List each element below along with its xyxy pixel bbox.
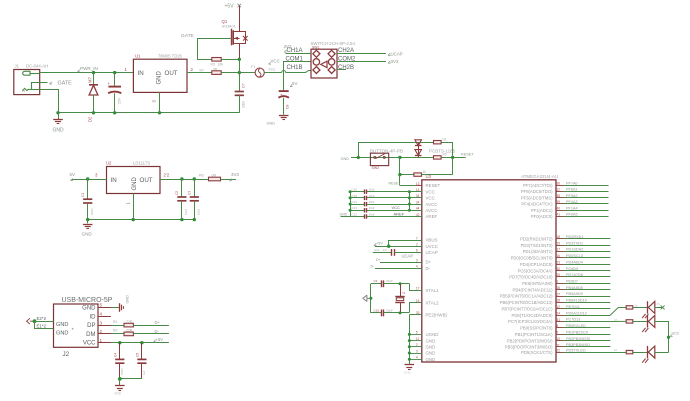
node junction rail at D2 xyxy=(92,111,95,114)
wire Q1 source down to R3 node xyxy=(239,44,241,60)
svg-text:+5V: +5V xyxy=(655,302,660,306)
svg-text:VCC: VCC xyxy=(672,332,680,336)
node junction VCC LEDs xyxy=(667,336,670,339)
svg-text:VCC: VCC xyxy=(392,205,401,210)
svg-text:UCAP: UCAP xyxy=(426,250,438,255)
svg-text:100n: 100n xyxy=(120,368,124,375)
node junction reset right xyxy=(451,156,454,159)
svg-text:IN: IN xyxy=(138,70,144,77)
resistor RLED1 xyxy=(626,306,633,309)
capacitor C11 1uf on UCAP xyxy=(391,249,393,256)
wire net PD7A7D6 xyxy=(564,276,611,278)
label 3V3 at CH1A xyxy=(284,50,287,52)
svg-text:COM1: COM1 xyxy=(286,56,304,62)
svg-text:GND: GND xyxy=(82,231,93,236)
svg-text:F1: F1 xyxy=(251,65,255,69)
pin stub VCC xyxy=(416,191,422,193)
wire RLED2 to LED2 xyxy=(633,321,647,323)
svg-text:AVCC: AVCC xyxy=(426,208,438,213)
svg-text:5V: 5V xyxy=(70,172,75,177)
node junction GND cap bus xyxy=(349,209,352,212)
svg-text:PF0(ADC0): PF0(ADC0) xyxy=(531,214,553,219)
svg-text:PB5A9D9: PB5A9D9 xyxy=(566,292,583,296)
svg-text:4: 4 xyxy=(416,356,418,360)
diode D2 M7 xyxy=(93,73,95,85)
svg-text:PC6(OC3A/OC4A): PC6(OC3A/OC4A) xyxy=(518,268,554,273)
regulator U1 78M05 box xyxy=(133,59,187,92)
ground rail wire xyxy=(58,112,239,114)
svg-text:5V: 5V xyxy=(292,81,297,86)
resistor R3 gate pull xyxy=(212,58,221,62)
svg-text:C10: C10 xyxy=(374,308,380,312)
node junction rail left xyxy=(86,218,89,221)
svg-text:0R: 0R xyxy=(212,173,217,177)
node junction GND cap bus xyxy=(349,203,352,206)
wire RLED3 to LED3 xyxy=(633,352,647,354)
wire COM1 to C8 xyxy=(284,62,312,91)
diode D6 clamp upper xyxy=(418,142,420,157)
svg-text:3: 3 xyxy=(416,349,418,353)
svg-text:PWR_IN: PWR_IN xyxy=(80,66,98,71)
wire crystal top node xyxy=(371,283,381,285)
svg-text:U1: U1 xyxy=(135,54,141,59)
ic U3 ATMEGA32U4-AU box xyxy=(422,180,556,362)
wire net PB5A9D9 xyxy=(564,296,611,298)
svg-text:PD1SDA2: PD1SDA2 xyxy=(566,248,583,252)
node junction shield xyxy=(33,319,37,323)
node junction VBUS-UVCC xyxy=(387,245,390,248)
svg-text:D+: D+ xyxy=(376,258,381,262)
svg-text:1k: 1k xyxy=(423,170,427,174)
svg-text:7: 7 xyxy=(416,236,418,240)
svg-text:C5: C5 xyxy=(136,353,140,357)
capacitor C16 100n xyxy=(350,191,364,193)
wire +5V to Q1 drain xyxy=(239,6,241,32)
svg-text:PB4A8D8: PB4A8D8 xyxy=(566,286,583,290)
capacitor C13 100n xyxy=(350,210,364,212)
svg-text:4: 4 xyxy=(416,265,418,269)
wire net PD6A11D12 xyxy=(564,315,611,317)
svg-text:PC7(ICP3/CLK0/OC4A): PC7(ICP3/CLK0/OC4A) xyxy=(508,319,553,324)
label 5V at C8 xyxy=(290,84,293,86)
pin stub PE6(INT6/AIN0) xyxy=(556,283,564,285)
pin stub PB0(SS/PCINT0) xyxy=(556,327,564,329)
svg-text:GND: GND xyxy=(426,338,436,343)
svg-text:PB5(PCINT5/OC1A/ADC12): PB5(PCINT5/OC1A/ADC12) xyxy=(500,294,553,299)
svg-text:U3: U3 xyxy=(426,174,432,179)
svg-text:UGND: UGND xyxy=(426,332,439,337)
fuse F1 PTC xyxy=(239,72,255,74)
wire U1 GND pin3 to rail xyxy=(159,92,161,112)
LED D4 RXLED xyxy=(647,315,649,327)
svg-text:R3: R3 xyxy=(211,63,215,67)
capacitor C9 22pF xyxy=(381,280,383,287)
node junction VCC cap C5 xyxy=(140,341,143,344)
svg-text:PB7D11: PB7D11 xyxy=(566,305,580,309)
svg-text:CH2A: CH2A xyxy=(338,48,354,54)
pin stub PD4(ICP1/ADC8) xyxy=(556,264,564,266)
svg-text:CH1A: CH1A xyxy=(287,48,303,54)
svg-text:10uf: 10uf xyxy=(369,200,375,204)
svg-text:6: 6 xyxy=(416,249,418,253)
svg-text:PD2(RXD1/INT2): PD2(RXD1/INT2) xyxy=(520,236,553,241)
button S1 BUTTON-4P-PB box xyxy=(370,153,388,165)
svg-text:RESET: RESET xyxy=(461,153,474,157)
svg-text:SW1: SW1 xyxy=(312,45,319,49)
wire net PF1A4 xyxy=(564,210,609,212)
transistor Q1 SO3401 PMOS xyxy=(231,29,233,46)
svg-text:1k: 1k xyxy=(614,348,618,352)
svg-text:D-: D- xyxy=(426,266,431,271)
svg-text:PF5A2: PF5A2 xyxy=(566,194,578,198)
wire to MCU RESET pin xyxy=(400,185,416,187)
svg-text:PC7D13: PC7D13 xyxy=(566,318,580,322)
node junction C input cap xyxy=(86,177,89,180)
node junction gate-pull to source xyxy=(238,58,241,61)
wire net PB6A10D10 xyxy=(564,302,611,304)
svg-text:4: 4 xyxy=(100,312,103,317)
node junction GND bus xyxy=(408,352,411,355)
wire net PF6A1 xyxy=(564,191,609,193)
svg-text:E1*2: E1*2 xyxy=(37,323,47,328)
svg-text:2: 2 xyxy=(416,243,418,247)
svg-text:24: 24 xyxy=(416,200,420,204)
svg-text:PD3(TXD1/INT3): PD3(TXD1/INT3) xyxy=(521,243,553,248)
svg-text:GND: GND xyxy=(340,212,348,216)
pin stub PC6(OC3A/OC4A) xyxy=(556,270,564,272)
svg-text:+: + xyxy=(72,327,75,332)
pin stub PC7(ICP3/CLK0/OC4A) xyxy=(556,321,564,323)
wire D- row xyxy=(375,268,422,270)
svg-text:GND: GND xyxy=(426,357,436,362)
svg-text:OUT: OUT xyxy=(140,177,153,184)
svg-text:1uf: 1uf xyxy=(383,248,387,252)
svg-text:3: 3 xyxy=(416,258,418,262)
wire net PD3TXD1 xyxy=(564,245,611,247)
pin stub PB5(PCINT5/OC1A/ADC12) xyxy=(556,296,564,298)
svg-text:GND: GND xyxy=(53,128,65,134)
svg-text:PD4(ICP1/ADC8): PD4(ICP1/ADC8) xyxy=(520,262,553,267)
node junction +5V column at out row xyxy=(238,71,241,74)
node junction crystal gnd xyxy=(369,297,372,300)
svg-text:RESET: RESET xyxy=(426,183,441,188)
svg-text:GND: GND xyxy=(426,351,436,356)
wire net PF4A3 xyxy=(564,203,609,205)
node junction UGND bus xyxy=(408,333,411,336)
wire COM2 to 3V3 label xyxy=(337,61,386,63)
svg-text:10uf: 10uf xyxy=(184,209,188,215)
wire Q1 gate loop xyxy=(198,39,232,60)
svg-text:PF5(ADC5/TMS): PF5(ADC5/TMS) xyxy=(521,195,553,200)
wire AREF row to GND label xyxy=(341,216,351,218)
svg-text:C4: C4 xyxy=(114,353,118,357)
svg-text:100n: 100n xyxy=(90,208,94,215)
resistor R1 22R xyxy=(124,323,133,327)
svg-text:CH1B: CH1B xyxy=(287,65,303,71)
wire net PF5A2 xyxy=(564,197,609,199)
pin stub PB2(PDI/PCINT2/MOSI) xyxy=(556,340,564,342)
wire LED1 row left xyxy=(618,307,626,309)
pin stub PD2(RXD1/INT2) xyxy=(556,238,564,240)
svg-text:33: 33 xyxy=(416,311,420,315)
svg-text:DM: DM xyxy=(86,332,95,338)
svg-text:C8: C8 xyxy=(286,105,290,109)
pin stub PF5(ADC5/TMS) xyxy=(556,197,564,199)
capacitor C4 on VBUS xyxy=(119,343,121,359)
capacitor C6 polarized input cap xyxy=(114,73,116,87)
svg-text:5: 5 xyxy=(100,303,103,308)
wire GND pin5 to ground xyxy=(111,307,119,309)
node junction crystal top xyxy=(399,282,402,285)
svg-text:PF7A0: PF7A0 xyxy=(566,182,578,186)
wire R7 to +5V node xyxy=(221,72,239,74)
svg-text:25V: 25V xyxy=(118,97,122,104)
svg-text:R1: R1 xyxy=(113,320,118,324)
svg-text:PD3TXD1: PD3TXD1 xyxy=(566,241,583,245)
capacitor C15 100n xyxy=(350,197,364,199)
svg-text:PD7A7D6: PD7A7D6 xyxy=(566,273,583,277)
svg-text:VCC: VCC xyxy=(83,341,96,347)
svg-text:USB-MICRO-5P: USB-MICRO-5P xyxy=(62,297,113,304)
label 3V3 output xyxy=(230,179,233,181)
svg-text:9: 9 xyxy=(557,331,559,335)
wire net PD4A6D4 xyxy=(564,264,611,266)
svg-text:C15: C15 xyxy=(352,194,358,198)
pin stub AVCC xyxy=(416,210,422,212)
label 5V supply xyxy=(71,178,74,180)
svg-text:3V3: 3V3 xyxy=(391,59,399,64)
svg-text:CH2B: CH2B xyxy=(338,65,354,71)
pin stub VCC xyxy=(416,197,422,199)
svg-text:22R: 22R xyxy=(126,329,133,333)
svg-text:15: 15 xyxy=(416,299,420,303)
svg-text:22pF: 22pF xyxy=(386,308,393,312)
switch SW1 SWITCH-2CH-8P-2.54 box xyxy=(311,49,337,78)
wire 5V input to U2 IN xyxy=(72,179,107,181)
svg-text:10uf: 10uf xyxy=(369,194,375,198)
svg-text:M7: M7 xyxy=(88,77,93,83)
wire UCAP row with series capacitor xyxy=(373,252,392,254)
wire U1 OUT to R7 xyxy=(187,72,212,74)
wire XTAL1 bend xyxy=(410,284,422,291)
svg-text:PD7(T0/OC4D/ADC10): PD7(T0/OC4D/ADC10) xyxy=(509,275,553,280)
svg-text:VCC: VCC xyxy=(271,59,280,64)
wire shield to J2 GND pins xyxy=(35,321,54,323)
wire GATE stub from J1 xyxy=(40,82,48,84)
diode D7 clamp lower xyxy=(415,150,422,156)
pin stub GND xyxy=(98,307,111,309)
svg-text:C13: C13 xyxy=(352,206,358,210)
svg-text:PD6(T1/OC4D/ADC9): PD6(T1/OC4D/ADC9) xyxy=(512,313,554,318)
pin stub PB7(PCINT7/OC0A/OC1C) xyxy=(556,308,564,310)
node junction crystal bottom xyxy=(399,311,402,314)
wire CH1A to 3V3 xyxy=(286,53,312,55)
pin stub PD7(T0/OC4D/ADC10) xyxy=(556,276,564,278)
svg-text:PF4A3: PF4A3 xyxy=(566,200,578,204)
pin stub PF4(ADC4/TCK) xyxy=(556,203,564,205)
svg-text:GND: GND xyxy=(56,322,68,328)
svg-text:R2: R2 xyxy=(113,329,118,333)
LED D3 xyxy=(647,301,649,313)
svg-text:PB7(PCINT7/OC0A/OC1C): PB7(PCINT7/OC0A/OC1C) xyxy=(502,306,554,311)
node junction VCC bus xyxy=(408,209,411,212)
wire R1 to D+ label xyxy=(133,325,169,327)
svg-text:C2: C2 xyxy=(175,191,179,195)
node junction pin1 rail xyxy=(132,218,135,221)
wire LED1 to supply cross xyxy=(654,307,662,309)
pin stub PD3(TXD1/INT3) xyxy=(556,245,564,247)
svg-text:1k: 1k xyxy=(614,317,618,321)
svg-text:PD0SCL3: PD0SCL3 xyxy=(566,254,583,258)
svg-text:XTAL1: XTAL1 xyxy=(426,288,440,293)
svg-text:SW2: SW2 xyxy=(372,166,380,170)
resistor RLED2 xyxy=(626,320,633,323)
svg-text:C7: C7 xyxy=(242,83,246,88)
node junction rail at C6 xyxy=(113,111,116,114)
svg-text:PF7(ADC7/TDI): PF7(ADC7/TDI) xyxy=(523,183,553,188)
svg-text:41: 41 xyxy=(557,213,561,217)
wire net PB1PB2SCK xyxy=(564,334,611,336)
svg-text:PF6(ADC6/TDO): PF6(ADC6/TDO) xyxy=(521,189,553,194)
svg-text:PD5TXLED: PD5TXLED xyxy=(566,348,586,352)
node junction C6 top xyxy=(113,71,116,74)
svg-text:BUTTON-4P-PB: BUTTON-4P-PB xyxy=(370,148,403,153)
wire DM through R2 xyxy=(111,333,124,335)
label +5V net at J2 xyxy=(154,340,157,342)
capacitor C out A of U2 xyxy=(181,179,183,197)
svg-text:+5V: +5V xyxy=(225,4,235,10)
svg-text:2'2: 2'2 xyxy=(164,173,170,178)
node junction rail at U1 pin3 xyxy=(158,111,161,114)
svg-text:VCC: VCC xyxy=(426,196,435,201)
svg-text:R5: R5 xyxy=(443,153,447,157)
wire RLED1 to LED1 xyxy=(633,307,647,309)
wire net PC6D5 xyxy=(564,270,611,272)
svg-text:GND: GND xyxy=(82,306,96,312)
node junction GND cap bus xyxy=(349,190,352,193)
svg-text:SO3401: SO3401 xyxy=(222,24,236,29)
wire net PE6D7 xyxy=(564,283,611,285)
svg-text:3: 3 xyxy=(100,320,103,325)
wire net PC7D13 xyxy=(564,321,611,323)
pin stub AVCC xyxy=(416,204,422,206)
wire net PD0SCL3 xyxy=(564,257,611,259)
svg-text:GND: GND xyxy=(341,157,350,161)
svg-text:ATMEGA32U4-AU: ATMEGA32U4-AU xyxy=(521,174,558,179)
svg-text:PF6A1: PF6A1 xyxy=(566,188,578,192)
svg-text:PB0(SS/PCINT0): PB0(SS/PCINT0) xyxy=(520,326,553,331)
svg-text:GND: GND xyxy=(56,331,68,337)
wire R3 to node xyxy=(221,59,239,61)
svg-text:LD1117S: LD1117S xyxy=(133,161,150,166)
resistor R5 on main row xyxy=(434,156,442,159)
pin stub PD1(SDA/INT1) xyxy=(556,251,564,253)
LED D5 TXLED xyxy=(647,346,649,358)
svg-text:D1: D1 xyxy=(443,137,447,141)
pin stub DP xyxy=(98,325,111,327)
svg-text:22: 22 xyxy=(557,348,561,352)
label VCC net at fuse xyxy=(269,62,272,64)
wire DP through R1 xyxy=(111,325,124,327)
wire LED2 to VCC vertical xyxy=(655,322,669,353)
resistor R7 series xyxy=(212,71,221,75)
ground rail of U2 xyxy=(88,219,195,221)
svg-text:PB0RXLED: PB0RXLED xyxy=(566,324,586,328)
svg-text:PD2RXD1: PD2RXD1 xyxy=(566,235,584,239)
svg-text:+5V: +5V xyxy=(376,241,383,245)
wire net PB3PB3MISO xyxy=(564,346,611,348)
pin stub ID xyxy=(98,316,111,318)
label VCC net at LEDs xyxy=(670,334,673,336)
wire VCC bus vertical right xyxy=(409,192,411,211)
svg-text:XTAL2: XTAL2 xyxy=(426,300,440,305)
svg-text:PD0(OC0B/SCL/INT0): PD0(OC0B/SCL/INT0) xyxy=(511,256,553,261)
svg-text:C16: C16 xyxy=(352,188,358,192)
svg-text:0R: 0R xyxy=(213,67,218,71)
svg-text:DC-044-AH: DC-044-AH xyxy=(26,63,48,68)
pin stub PD5 xyxy=(556,352,564,354)
svg-text:J2: J2 xyxy=(63,351,70,358)
ground symbol below MCU gnd bus xyxy=(405,364,415,366)
wire lower resistor row xyxy=(399,157,401,185)
resistor RLED3 xyxy=(626,350,633,353)
svg-text:UCAP: UCAP xyxy=(402,254,414,259)
svg-text:DP: DP xyxy=(87,323,95,329)
node junction VCC bus xyxy=(408,190,411,193)
svg-text:Y1: Y1 xyxy=(402,291,406,295)
pin stub PD6(T1/OC4D/ADC9) xyxy=(556,315,564,317)
capacitor C12 100n xyxy=(350,216,364,218)
connector J2 USB-MICRO-5P box xyxy=(54,304,99,347)
svg-text:22pF: 22pF xyxy=(386,279,393,283)
svg-text:D-: D- xyxy=(155,329,160,334)
ground symbol below C8 xyxy=(279,115,289,117)
svg-text:78M05 TO26: 78M05 TO26 xyxy=(158,54,182,59)
svg-text:PC6D5: PC6D5 xyxy=(566,267,578,271)
svg-text:C9: C9 xyxy=(374,279,378,283)
node junction caps ground xyxy=(118,377,122,381)
svg-text:100n: 100n xyxy=(242,101,246,108)
wire net PD2RXD1 xyxy=(564,238,611,240)
pin stub PD0(OC0B/SCL/INT0) xyxy=(556,257,564,259)
svg-text:17: 17 xyxy=(416,287,420,291)
node junction rail at J1 xyxy=(56,111,59,114)
svg-text:AREF: AREF xyxy=(394,212,405,217)
supply +5V symbol xyxy=(238,4,242,8)
capacitor C input of U2 xyxy=(87,179,89,199)
pin stub PB3(PDO/PCINT3/MISO) xyxy=(556,346,564,348)
svg-text:PB2(PDI/PCINT2/MOSI): PB2(PDI/PCINT2/MOSI) xyxy=(507,338,553,343)
wire stub GND xyxy=(409,359,422,361)
svg-text:10uf: 10uf xyxy=(197,209,201,215)
svg-text:PD6A11D12: PD6A11D12 xyxy=(566,311,587,315)
svg-text:10uf: 10uf xyxy=(369,212,375,216)
wire net PF0A5 xyxy=(564,216,609,218)
wire J1 sleeve to ground rail xyxy=(40,90,59,113)
wire LED2 row left xyxy=(610,320,626,322)
svg-text:U2: U2 xyxy=(106,161,112,166)
ground symbol left arrow at crystal xyxy=(363,295,370,301)
label GATE net xyxy=(50,82,53,84)
svg-text:GATE: GATE xyxy=(181,33,194,39)
svg-text:R6: R6 xyxy=(199,173,204,177)
pin stub PF6(ADC6/TDO) xyxy=(556,191,564,193)
pin stub PF1(ADC1) xyxy=(556,210,564,212)
wire R6 to 3V3 label xyxy=(221,179,237,181)
svg-text:PF1A4: PF1A4 xyxy=(566,206,578,210)
svg-text:GND: GND xyxy=(267,121,276,125)
wire U2 OUT to R6 xyxy=(160,179,209,181)
